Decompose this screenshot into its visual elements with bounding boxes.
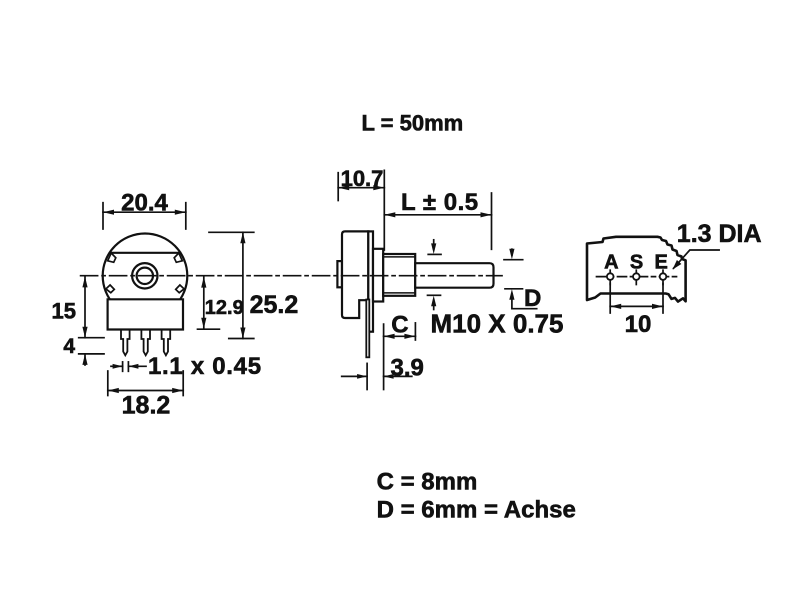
svg-text:1.1 x 0.45: 1.1 x 0.45: [148, 353, 262, 380]
dim 10.7 dimension line with arrows: [338, 187, 384, 189]
svg-text:S: S: [630, 252, 643, 274]
dim 18.2 extension line right: [182, 371, 184, 396]
svg-text:L = 50mm: L = 50mm: [362, 111, 464, 136]
dim 1.1 right arrow: [128, 365, 146, 367]
dim 3.9 left arrow line: [342, 375, 367, 377]
svg-text:L ± 0.5: L ± 0.5: [401, 189, 479, 216]
dim 10 extension line right: [662, 284, 664, 314]
side view: shaft: [415, 263, 493, 288]
dim 20.4 extension line left: [102, 203, 104, 229]
dim 4 bottom tick: [79, 353, 104, 355]
side view: mounting collar: [373, 249, 383, 302]
dim 25.2 top tick: [209, 231, 254, 233]
svg-text:4: 4: [63, 335, 75, 358]
dim L ± 0.5 extension line right: [491, 193, 493, 249]
svg-text:1.3 DIA: 1.3 DIA: [677, 220, 762, 248]
front view: tab notch upper-left: [108, 253, 116, 262]
svg-text:20.4: 20.4: [121, 190, 168, 217]
side view: thread crest line bottom: [383, 292, 415, 294]
front view: bushing hole outer circle: [132, 263, 157, 288]
svg-text:12.9: 12.9: [205, 297, 244, 319]
dim C extension line left (shared with 3.9): [383, 324, 385, 389]
dim 15 bottom tick: [79, 337, 104, 339]
dim 4 arrow below pointing up: [84, 354, 86, 365]
dim D bottom arrow with leader: [505, 288, 523, 290]
side view: main body with bottom notch: [342, 231, 368, 318]
dim 25.2 dimension line vertical: [242, 232, 244, 338]
rear view: hole S: [635, 270, 637, 284]
rear view: outline blob: [587, 237, 686, 302]
M10 callout top arrow: [428, 253, 441, 255]
dim 18.2 dimension line with arrows: [108, 390, 183, 392]
svg-text:3.9: 3.9: [391, 354, 424, 381]
front view: pin 2: [141, 330, 150, 356]
svg-text:15: 15: [52, 299, 76, 324]
svg-text:A: A: [604, 252, 618, 274]
dim L ± 0.5 dimension line with arrows: [384, 214, 491, 216]
front view: bushing hole inner circle: [137, 268, 153, 284]
dim 10 dimension line with arrows: [610, 305, 663, 307]
M10 callout bottom arrow: [428, 294, 441, 296]
front view: tab notch upper-right: [174, 253, 182, 262]
dim 20.4 extension line right: [185, 203, 187, 229]
front view: top chord line: [110, 252, 180, 254]
svg-text:C = 8mm: C = 8mm: [377, 468, 478, 495]
side view: threaded bushing: [383, 254, 415, 296]
svg-text:C: C: [391, 312, 408, 339]
front view: lower case rectangle: [108, 299, 183, 329]
rear view: hole E: [662, 270, 664, 284]
dim C dimension line with arrows: [384, 335, 416, 337]
dim 25.2 bottom tick: [229, 338, 254, 340]
dim 3.9 right arrow line: [384, 375, 412, 377]
svg-text:D: D: [524, 285, 541, 312]
dim 15 dimension line vertical: [84, 276, 86, 337]
svg-text:18.2: 18.2: [122, 392, 171, 420]
dim D top arrow: [504, 259, 523, 261]
side view: rear cover plate: [368, 231, 373, 331]
front view: pin 3: [162, 330, 171, 356]
dim 10.7 extension line left: [337, 173, 339, 201]
dim 12.9 dimension line vertical: [203, 277, 205, 329]
dim 10.7 extension line right: [383, 170, 385, 250]
svg-text:25.2: 25.2: [250, 291, 299, 319]
svg-text:10: 10: [625, 311, 652, 338]
dim 12.9 bottom tick: [198, 328, 220, 330]
1.3 DIA leader line: [674, 250, 720, 268]
dim 20.4 dimension line with arrows: [103, 211, 186, 213]
dim C extension line right: [414, 323, 416, 340]
svg-text:D = 6mm = Achse: D = 6mm = Achse: [377, 496, 576, 523]
dim 18.2 extension line left: [107, 371, 109, 396]
front view: pin 1: [121, 330, 130, 356]
dim 1.1 left arrow: [111, 365, 123, 367]
front view: round body circle: [103, 233, 188, 318]
rear view: hole A: [609, 270, 611, 284]
front view: tab notch lower-left: [106, 285, 114, 293]
front view: tab notch lower-right: [176, 285, 184, 293]
side view: thread crest line top: [383, 256, 415, 258]
svg-text:M10 X 0.75: M10 X 0.75: [431, 309, 564, 339]
dim 10 extension line left: [609, 284, 611, 314]
svg-text:E: E: [655, 252, 668, 274]
side view: left boss: [337, 261, 342, 287]
side view: solder lug strip: [366, 300, 369, 358]
main horizontal centerline: [81, 275, 502, 277]
svg-text:10.7: 10.7: [341, 166, 384, 191]
rear view: lug holes centerline: [597, 276, 677, 278]
dim 3.9 extension line left: [366, 363, 368, 389]
dim 1.1 ticks: [122, 362, 124, 371]
